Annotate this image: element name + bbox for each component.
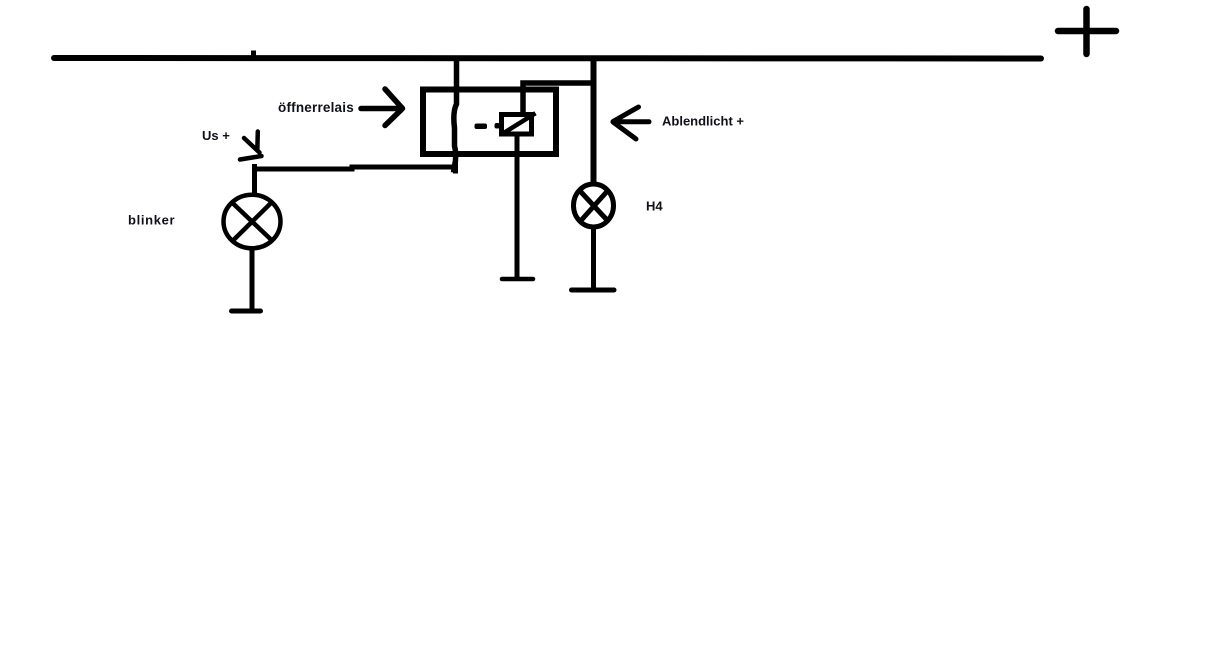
- wire: lamp H4 to ground: [591, 227, 596, 288]
- ground under relay: [502, 277, 533, 282]
- wire: bus down to lamp H4: [591, 58, 597, 186]
- svg-text:Ablendlicht +: Ablendlicht +: [662, 114, 744, 129]
- svg-text:H4: H4: [646, 199, 663, 214]
- ground under lamp H4: [572, 288, 615, 293]
- label oeffnerrelais: [278, 100, 354, 115]
- wire: blinker lamp to ground: [250, 248, 255, 310]
- svg-text:Us +: Us +: [202, 128, 230, 143]
- lamp blinker: [224, 195, 281, 249]
- label Us +: [202, 128, 230, 143]
- relay contact element (small box): [502, 115, 532, 135]
- wire: relay coil to ground: [515, 135, 520, 278]
- arrow at Us+ pointing to wire corner: [240, 132, 262, 160]
- svg-text:blinker: blinker: [128, 213, 175, 228]
- ground under blinker: [232, 309, 261, 314]
- arrow pointing left at headlight feed wire: [613, 107, 649, 139]
- relay box U1 (oeffnerrelais): [423, 90, 556, 155]
- arrow pointing right at relay box: [361, 89, 403, 126]
- label blinker: [128, 213, 175, 228]
- relay contact diagonal blade: [505, 113, 536, 132]
- svg-text:öffnerrelais: öffnerrelais: [278, 100, 354, 115]
- label H4: [646, 199, 663, 214]
- wire: Us+ node to blinker lamp and relay terminal: [252, 157, 458, 195]
- battery plus terminal symbol: [1058, 9, 1116, 54]
- wire: relay output up and over to headlight feed (terminal 87a): [523, 83, 593, 114]
- wire: bus down through relay box (terminal 30): [454, 58, 457, 173]
- wire: +12V supply bus: [54, 55, 1041, 62]
- dash-dot actuator linkage: [475, 123, 501, 129]
- label Ablendlicht +: [662, 114, 744, 129]
- junction tick on bus at blinker column: [251, 51, 256, 56]
- lamp H4: [574, 184, 614, 227]
